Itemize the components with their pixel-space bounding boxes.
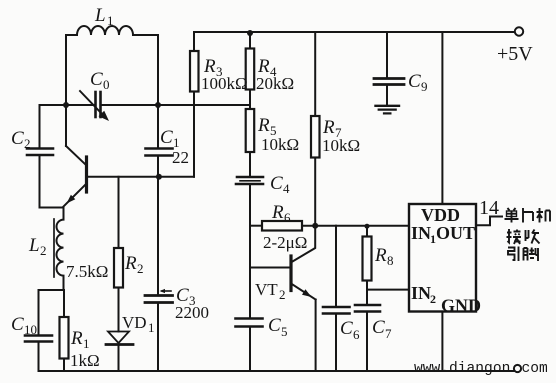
transistor VT1 [64,146,87,207]
svg-text:14: 14 [479,197,499,219]
svg-text:com: com [522,361,549,377]
label C10 [11,314,37,337]
capacitor C2 [27,105,53,208]
label C0 [90,69,110,92]
label C6 [340,318,360,342]
wire C4 to C5 vertical [249,185,251,318]
inductor L1 [66,26,158,35]
label L2 [28,235,47,258]
glyph 接 [507,229,522,244]
svg-text:2: 2 [24,136,31,151]
wire VDD pin [441,32,443,204]
label VT2 [255,280,286,302]
glyph 收 [526,230,540,244]
label C1 and value 22 [160,127,189,167]
wire right tank vertical [157,35,159,147]
svg-text:C: C [372,317,385,338]
svg-text:C: C [408,71,421,92]
svg-text:10: 10 [24,322,37,337]
svg-text:6: 6 [353,327,360,342]
node tank-left junction [63,102,69,108]
terminal bottom right [514,365,521,372]
capacitor C6 [323,226,350,371]
capacitor C3 [145,289,173,371]
capacitor C9 [374,32,404,105]
label C5 [268,315,288,339]
resistor R6 [250,221,409,231]
svg-text:IN: IN [411,223,431,243]
svg-text:9: 9 [421,79,428,94]
label C7 [372,317,392,341]
svg-text:7: 7 [385,326,392,341]
svg-text:R: R [70,328,83,349]
capacitor C1 [146,149,173,156]
label C9 [408,71,428,94]
node R6 right junction [312,223,318,229]
svg-text:C: C [270,173,283,194]
label C3 value 2200 [175,285,209,322]
svg-text:8: 8 [387,253,394,268]
label R1 value 1k [70,328,100,370]
svg-text:C: C [11,314,24,335]
svg-text:R: R [374,245,387,266]
wire R8 bottom to IN2 [367,289,409,291]
svg-text:4: 4 [283,181,290,196]
wire C2 to emitter [40,207,64,209]
wire +5V top rail [194,31,515,33]
watermark [414,361,548,377]
label IC IN1 OUT [411,223,475,246]
svg-text:22: 22 [172,148,189,167]
wire VT1 base [88,176,195,178]
svg-text:L: L [94,5,106,26]
resistor R1 [60,290,69,371]
wire bottom rail [39,370,514,372]
glyph 片 [523,208,533,223]
label R4 value 20k [256,56,294,93]
svg-text:R: R [271,202,284,223]
svg-text:R: R [124,253,137,274]
resistor R2 [114,177,123,332]
wire OUT pin 14 [476,217,502,226]
resistor R7 [311,32,320,226]
svg-text:2-2μΩ: 2-2μΩ [263,233,307,252]
svg-text:1: 1 [148,320,155,335]
capacitor C5 [236,319,263,372]
label IC IN2 [411,283,436,306]
wire C1 bottom to base junction to C3 [157,157,159,295]
svg-text:VDD: VDD [421,205,460,225]
svg-text:L: L [28,235,40,256]
node base junction [156,174,162,180]
svg-text:IN: IN [411,283,431,303]
svg-text:1: 1 [83,336,90,351]
node R4 top [247,30,253,36]
wire tank horizontal [40,104,96,106]
label R2 value 7.5k [66,253,144,281]
label C2 [11,128,31,151]
svg-text:R: R [257,115,270,136]
wire L2 bottom node [39,289,64,291]
label C4 [270,173,290,196]
svg-text:5: 5 [281,324,288,339]
svg-text:7.5kΩ: 7.5kΩ [66,262,108,281]
ground [376,106,400,114]
capacitor C7 [355,290,380,371]
svg-text:VD: VD [122,313,147,332]
svg-text:100kΩ: 100kΩ [201,74,248,93]
resistor R5 [246,109,255,176]
svg-text:C: C [11,128,24,149]
capacitor C0 (variable) [80,91,109,121]
resistor R3 [190,32,199,177]
svg-text:2: 2 [137,261,144,276]
svg-text:C: C [268,315,281,336]
label VD1 [122,313,155,335]
svg-text:2200: 2200 [175,303,209,322]
label R7 value 10k [322,117,360,155]
svg-text:www.diangon: www.diangon [414,361,510,377]
svg-text:OUT: OUT [436,223,475,243]
label R8 [374,245,394,268]
svg-text:+5V: +5V [497,43,533,65]
node R8 top junction [365,224,370,229]
svg-text:1: 1 [107,13,114,28]
label R3 value 100k [201,56,248,93]
op-amp U1 IC box [409,204,476,312]
svg-text:0: 0 [103,77,110,92]
svg-text:C: C [90,69,103,90]
label IC GND [441,296,481,316]
svg-text:2: 2 [430,292,436,306]
svg-text:6: 6 [284,210,291,225]
transistor VT2 [250,226,316,371]
glyph 引 [508,247,519,262]
svg-text:10kΩ: 10kΩ [261,135,299,154]
resistor R8 [363,226,372,290]
label IC VDD [421,205,460,225]
diode VD1 [106,332,133,372]
svg-text:2: 2 [279,287,286,302]
label R5 value 10k [257,115,299,154]
svg-text:2: 2 [40,243,47,258]
svg-text:C: C [160,127,173,148]
wire left tank vertical [65,35,67,146]
svg-text:R: R [322,117,335,138]
svg-text:VT: VT [255,280,278,299]
terminal +5V [515,27,523,35]
svg-text:1kΩ: 1kΩ [70,351,100,370]
label R6 value [263,202,307,252]
capacitor C10 [25,290,52,371]
svg-text:10kΩ: 10kΩ [322,136,360,155]
svg-text:C: C [340,318,353,339]
glyph 脚 [524,248,539,262]
label L1 [94,5,114,28]
capacitor C4 [236,177,263,184]
wire GND pin [441,312,443,372]
svg-text:20kΩ: 20kΩ [256,74,294,93]
node tank-right junction [155,102,161,108]
resistor R4 [246,32,255,109]
glyph 机 [537,208,551,223]
svg-text:GND: GND [441,296,481,316]
glyph 单 [505,208,519,223]
inductor L2 [54,208,64,291]
